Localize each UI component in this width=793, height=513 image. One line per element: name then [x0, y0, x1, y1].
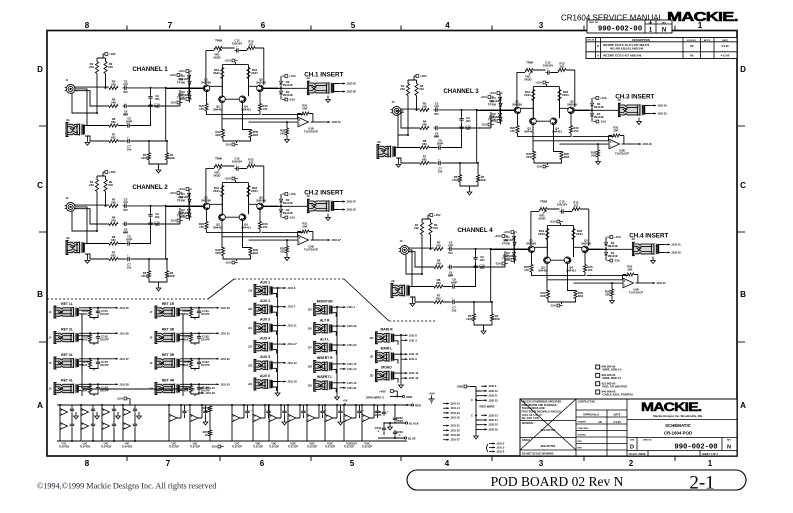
- wire gnd chain: [470, 387, 481, 432]
- wire emitter join: [207, 111, 304, 114]
- resistor R130 6K8: [249, 130, 252, 138]
- svg-text:J2L: J2L: [66, 237, 71, 240]
- capacitor C35 47P 50V: [434, 108, 440, 112]
- wire RET 3R row: [180, 359, 213, 371]
- op-amp U4B TL072ACP: [623, 278, 634, 288]
- svg-text:INSERT L: INSERT L: [317, 375, 332, 379]
- wire INSERT L: [333, 383, 340, 393]
- svg-text:APPROVALS: APPROVALS: [583, 413, 599, 417]
- wire tail join: [222, 102, 251, 143]
- svg-text:AB: AB: [598, 421, 602, 424]
- svg-text:DWG NO.: DWG NO.: [643, 440, 652, 442]
- wire transistor interconnect: [518, 101, 572, 126]
- svg-text:.001: .001: [154, 223, 160, 227]
- wire main signal bus: [495, 248, 603, 250]
- svg-text:1: 1: [708, 459, 713, 468]
- svg-text:N: N: [662, 28, 666, 34]
- checkbox 940-008-00: [596, 390, 600, 394]
- resistor R42 249: [429, 223, 432, 235]
- capacitor C201: [70, 407, 74, 413]
- svg-text:J101-33: J101-33: [220, 382, 230, 386]
- svg-text:TL072CP: TL072CP: [253, 446, 264, 449]
- svg-text:TL072CP: TL072CP: [190, 446, 201, 449]
- svg-text:200: 200: [605, 292, 610, 296]
- transistor Q32 2N5089: [568, 107, 575, 114]
- svg-text:1N4148: 1N4148: [283, 83, 293, 87]
- resistor R431 20K: [626, 273, 634, 276]
- svg-text:3-9-95: 3-9-95: [613, 421, 621, 424]
- insert jack J1I channel 1: [308, 82, 333, 94]
- svg-text:TL072ACP: TL072ACP: [304, 247, 318, 251]
- wire A-row opamp 7: [325, 405, 337, 441]
- svg-text:100/10V: 100/10V: [543, 63, 554, 67]
- svg-text:100 PF: 100 PF: [201, 363, 210, 367]
- svg-text:+48V: +48V: [420, 74, 427, 78]
- wire row1 to center: [453, 249, 505, 267]
- svg-text:C: C: [471, 398, 473, 402]
- wire lower pair: [474, 302, 492, 329]
- svg-text:6K8: 6K8: [578, 294, 584, 298]
- resistor R250 10: [208, 406, 211, 412]
- resistor R36 249: [420, 126, 429, 129]
- svg-text:DATE: DATE: [614, 413, 621, 417]
- svg-text:+15A: +15A: [116, 397, 123, 401]
- wire channel bus: [166, 205, 204, 207]
- svg-text:J30: J30: [370, 337, 375, 340]
- wire A-row pair 2: [81, 405, 97, 441]
- capacitor C17 100 10V: [126, 139, 132, 143]
- wire A-row opamp 9: [362, 405, 374, 441]
- wire main signal bus: [170, 205, 278, 207]
- output connector J102-37: [324, 239, 330, 241]
- connector J101-38: [112, 383, 118, 385]
- svg-text:J102-30: J102-30: [671, 251, 681, 255]
- connector J101-12: [280, 362, 286, 364]
- insert send connector J102-37: [339, 201, 345, 203]
- wire RET left column bus: [82, 314, 188, 389]
- svg-text:TL074CN: TL074CN: [80, 446, 91, 449]
- ground channel 2 input stage: [156, 286, 161, 291]
- wire A-row opamp 2: [232, 405, 244, 441]
- svg-text:J4L: J4L: [391, 280, 396, 283]
- svg-text:+15A: +15A: [600, 96, 607, 100]
- ground A-row pair 1: [74, 414, 79, 419]
- svg-text:100P: 100P: [126, 237, 133, 241]
- svg-text:J102-38: J102-38: [346, 90, 356, 94]
- svg-text:AUX 2: AUX 2: [260, 299, 270, 303]
- capacitor C233: [393, 430, 397, 436]
- svg-text:RET 2L: RET 2L: [61, 327, 73, 331]
- svg-text:5: 5: [350, 459, 355, 468]
- svg-text:CHANNEL 2: CHANNEL 2: [132, 184, 168, 191]
- svg-text:200: 200: [591, 153, 596, 157]
- capacitor C18 100P 25V: [126, 123, 132, 127]
- svg-text:J21: J21: [248, 327, 253, 330]
- svg-text:TP100: TP100: [488, 102, 497, 106]
- svg-text:681: 681: [422, 142, 427, 146]
- arrows J101-21..27: [443, 425, 449, 427]
- svg-text:WIRE, RED 4.5: WIRE, RED 4.5: [603, 376, 622, 380]
- connector J101-31: [213, 332, 219, 334]
- capacitor C39 .001: [459, 117, 463, 123]
- insert jack J2I channel 2: [308, 200, 333, 212]
- svg-text:1N4148: 1N4148: [608, 244, 618, 248]
- svg-text:J101-30: J101-30: [220, 306, 230, 310]
- svg-text:-15A: -15A: [481, 123, 487, 127]
- capacitor C48 100P 25V: [451, 284, 457, 288]
- wire emitter join: [207, 229, 304, 232]
- resistor R330 6K8: [560, 152, 563, 160]
- resistor R429 6K8: [546, 291, 549, 299]
- svg-text:BLACK: BLACK: [409, 422, 419, 426]
- resistor R38 681: [420, 146, 429, 149]
- wire phantom to input: [408, 76, 417, 135]
- svg-text:+15A: +15A: [535, 81, 542, 85]
- resistor R212 301: [247, 164, 255, 167]
- resistor R129 6K8: [221, 130, 224, 138]
- wire A-row caps right: [384, 405, 407, 441]
- connector J102-10: [481, 390, 487, 392]
- resistor R34 100K: [476, 175, 479, 182]
- resistor R14 100K: [165, 153, 168, 160]
- svg-text:1N4148: 1N4148: [283, 211, 293, 215]
- svg-text:200: 200: [280, 249, 285, 253]
- phantom +48V tag channel 2: [103, 171, 105, 173]
- svg-text:BLUE: BLUE: [408, 437, 416, 441]
- svg-text:CH.1 INSERT: CH.1 INSERT: [304, 72, 343, 79]
- svg-text:2N5089: 2N5089: [256, 198, 266, 202]
- svg-text:J32: J32: [370, 375, 375, 378]
- svg-text:J102-13: J102-13: [488, 413, 498, 417]
- wire tail join: [222, 220, 251, 261]
- wire differential pair frame: [547, 223, 573, 255]
- wire main bus: [400, 335, 402, 383]
- svg-text:DATE: DATE: [722, 39, 728, 42]
- svg-text:J101-12: J101-12: [287, 361, 297, 365]
- svg-text:+15A: +15A: [289, 192, 296, 196]
- svg-text:TL072CP: TL072CP: [362, 446, 373, 449]
- capacitor C208: [133, 422, 137, 428]
- svg-text:47/25: 47/25: [396, 419, 403, 423]
- svg-text:ALT R: ALT R: [320, 318, 330, 322]
- insert send connector J102-39: [339, 83, 345, 85]
- svg-text:RET 3R: RET 3R: [162, 353, 175, 357]
- op-amp U3C TL074CN upper: [102, 409, 110, 416]
- svg-text:D: D: [740, 65, 746, 74]
- svg-text:1N4148: 1N4148: [594, 105, 604, 109]
- insert jack J4I channel 4: [633, 243, 658, 255]
- svg-text:J102-11: J102-11: [488, 394, 498, 398]
- svg-text:-15A: -15A: [550, 304, 556, 308]
- resistor R230 6K8: [249, 248, 252, 256]
- connector J101-30: [340, 344, 346, 346]
- svg-text:J3L: J3L: [377, 141, 382, 144]
- connector J101-29: [340, 325, 346, 327]
- svg-text:J101-17: J101-17: [287, 342, 297, 346]
- svg-text:REV: REV: [578, 441, 583, 443]
- connector J101-32: [213, 358, 219, 360]
- capacitor C45 47P 50V: [448, 247, 454, 251]
- connector J101-30: [213, 307, 219, 309]
- svg-text:RET 2R: RET 2R: [162, 327, 175, 331]
- ground main bus: [399, 383, 404, 388]
- wire MONITOR: [333, 307, 340, 317]
- connector J101-3: [402, 339, 408, 341]
- resistor R123 150: [258, 104, 261, 112]
- wire RET 2R row: [180, 333, 213, 345]
- wire row1 to center: [128, 206, 180, 224]
- svg-text:604: 604: [184, 312, 189, 316]
- svg-text:TL072ACP: TL072ACP: [304, 129, 318, 133]
- svg-text:J101-16: J101-16: [450, 416, 460, 420]
- wire insert jack sends: [589, 106, 650, 114]
- svg-text:DESCRIPTION: DESCRIPTION: [632, 38, 650, 42]
- capacitor C163 100 PF: [197, 360, 201, 366]
- diode D21 1N4148: [187, 192, 190, 197]
- svg-text:+15V: +15V: [428, 391, 435, 395]
- resistor R118 2K21: [247, 68, 250, 79]
- diode D13 1N4148: [279, 80, 282, 85]
- svg-text:150: 150: [524, 268, 529, 272]
- connector J102-9: [481, 385, 487, 387]
- wire RET 4R row: [180, 384, 213, 396]
- svg-text:100 PF: 100 PF: [100, 312, 109, 316]
- capacitor C162 100 PF: [197, 335, 201, 341]
- wire AUX 1: [273, 288, 280, 298]
- transistor Q31 2N5089: [514, 107, 521, 114]
- svg-text:100 PF: 100 PF: [100, 337, 109, 341]
- svg-text:6K8: 6K8: [564, 155, 570, 159]
- svg-text:2K21: 2K21: [538, 232, 545, 236]
- capacitor C26 47P 50V: [123, 222, 129, 226]
- svg-text:-15A: -15A: [211, 445, 217, 449]
- svg-text:CHANNEL 4: CHANNEL 4: [457, 227, 493, 234]
- svg-text:50V: 50V: [434, 112, 439, 116]
- svg-text:2K21: 2K21: [524, 93, 531, 97]
- insert return connector J102-36: [339, 209, 345, 211]
- svg-text:J101-38: J101-38: [119, 382, 129, 386]
- resistor R229 6K8: [221, 248, 224, 256]
- mic input jack J4 channel 4: [400, 246, 409, 255]
- op-amp U2D TL074CN lower: [81, 423, 89, 430]
- diode D24 1N4148: [279, 208, 282, 213]
- resistor R27 681: [109, 257, 118, 260]
- connector J101-11: [280, 324, 286, 326]
- svg-text:8: 8: [85, 459, 90, 468]
- svg-text:TL074CN: TL074CN: [59, 446, 70, 449]
- svg-text:47P: 47P: [123, 82, 128, 86]
- svg-text:+15A: +15A: [224, 59, 231, 63]
- wire mic jack to filter network: [72, 87, 109, 125]
- svg-text:3: 3: [539, 21, 544, 30]
- ground opamp channel 4: [610, 299, 615, 304]
- svg-text:3-9-95: 3-9-95: [721, 45, 729, 48]
- svg-text:J1L: J1L: [66, 119, 71, 122]
- capacitor C152 100 PF: [96, 335, 100, 341]
- ground monitor bus: [335, 395, 340, 400]
- svg-text:POD BOARD 02 Rev N: POD BOARD 02 Rev N: [491, 474, 624, 489]
- connector J101-35: [112, 307, 118, 309]
- svg-text:J102-33: J102-33: [642, 142, 652, 146]
- op-amp U13C TL072ACP: [344, 414, 352, 422]
- mic input jack J2 channel 2: [66, 203, 75, 212]
- svg-text:249: 249: [111, 218, 116, 222]
- svg-text:J102-14: J102-14: [488, 418, 498, 422]
- ground A-row pair 2: [95, 414, 100, 419]
- resistor R46 249: [434, 265, 443, 268]
- transistor Q14 2N4401: [239, 96, 246, 103]
- resistor R12 249: [104, 62, 107, 74]
- wire opamp input: [222, 119, 297, 128]
- connector J101-15: [340, 363, 346, 365]
- wire A-row pair 1: [60, 405, 76, 441]
- wire trim loop: [517, 70, 575, 107]
- wire A-row top power rail: [57, 404, 407, 406]
- transistor Q24 2N4401: [239, 214, 246, 221]
- capacitor C19 .001: [148, 95, 152, 101]
- resistor R33 100K: [458, 175, 461, 182]
- wire A-row opamp 8: [344, 405, 356, 441]
- svg-text:100K: 100K: [141, 156, 148, 160]
- wire mic jack to filter network: [72, 205, 109, 243]
- capacitor C204: [91, 422, 95, 428]
- svg-text:150: 150: [510, 129, 515, 133]
- svg-text:J101-37: J101-37: [119, 357, 129, 361]
- svg-text:+15A: +15A: [489, 91, 496, 95]
- wire transistor interconnect: [207, 197, 261, 222]
- svg-text:TP100: TP100: [177, 198, 186, 202]
- svg-text:TRIM: TRIM: [215, 39, 223, 43]
- wire RET 1L row: [79, 308, 112, 320]
- capacitor C206: [112, 422, 116, 428]
- wire lower pair: [149, 141, 167, 168]
- transistor Q13 2N4401: [219, 96, 226, 103]
- resistor R222 150: [205, 222, 208, 230]
- wire opamp feedback: [298, 232, 313, 241]
- wire differential pair frame: [222, 62, 248, 94]
- svg-text:1N4148: 1N4148: [489, 99, 499, 103]
- ground channel 1 line input: [85, 140, 90, 145]
- resistor R119 2K21: [221, 68, 224, 79]
- svg-text:CH.2 INSERT: CH.2 INSERT: [304, 190, 343, 197]
- svg-text:J102-9: J102-9: [488, 384, 497, 388]
- svg-text:2N5089: 2N5089: [567, 102, 577, 106]
- svg-text:TL072CP: TL072CP: [269, 446, 280, 449]
- svg-text:5: 5: [351, 21, 356, 30]
- svg-text:J101-19: J101-19: [409, 376, 419, 380]
- -15A insert tag channel 4: [607, 260, 610, 262]
- svg-text:990-002-00: 990-002-00: [674, 443, 717, 451]
- svg-text:J101-9: J101-9: [409, 357, 418, 361]
- wire terminal BLACK: [384, 405, 405, 435]
- svg-text:CHANNEL 3: CHANNEL 3: [443, 88, 479, 95]
- svg-text:+15A: +15A: [178, 187, 185, 191]
- diode D16 1N4448: [188, 94, 191, 99]
- diode D15 1N4448: [188, 80, 191, 85]
- wire RET right column bus: [182, 314, 184, 389]
- output connector J102-33: [635, 143, 641, 145]
- svg-text:604: 604: [184, 337, 189, 341]
- capacitor C222: [245, 409, 249, 415]
- resistor R418 2K21: [572, 229, 575, 240]
- svg-text:301: 301: [249, 42, 254, 46]
- svg-text:4-12-95: 4-12-95: [721, 54, 730, 57]
- transistor Q42 2N5089: [582, 246, 589, 253]
- svg-text:681: 681: [111, 238, 116, 242]
- svg-text:AUX 4: AUX 4: [260, 336, 270, 340]
- svg-text:604: 604: [83, 312, 88, 316]
- svg-text:REV: REV: [662, 22, 667, 24]
- svg-text:6: 6: [261, 21, 266, 30]
- svg-text:J101-14: J101-14: [450, 406, 460, 410]
- capacitor C227: [338, 409, 342, 415]
- svg-text:+15A: +15A: [480, 95, 487, 99]
- svg-text:CABLE ASSY, POD/PSU: CABLE ASSY, POD/PSU: [603, 393, 634, 397]
- svg-text:J102-12: J102-12: [488, 398, 498, 402]
- mic input jack J1 channel 1: [66, 85, 75, 94]
- resistor R218 2K21: [247, 186, 250, 197]
- op-amp U11C TL072ACP: [307, 414, 315, 422]
- svg-text:J101-30: J101-30: [347, 343, 357, 347]
- svg-text:249: 249: [111, 100, 116, 104]
- svg-text:WIRE, ORN 4.5: WIRE, ORN 4.5: [603, 368, 622, 372]
- svg-text:47P: 47P: [434, 104, 439, 108]
- insert return connector J102-33: [650, 113, 656, 115]
- capacitor C224: [282, 409, 286, 415]
- svg-text:GND: GND: [457, 385, 463, 389]
- ground red wire chain: [475, 431, 477, 434]
- wire AUX 2: [273, 307, 280, 317]
- resistor R17 681: [109, 139, 118, 142]
- wire channel bus: [166, 87, 204, 89]
- svg-text:-15A: -15A: [600, 120, 606, 124]
- svg-text:-15A: -15A: [170, 101, 176, 105]
- svg-text:RET 4R: RET 4R: [162, 378, 175, 382]
- svg-text:J101-27: J101-27: [450, 438, 460, 442]
- resistor R228 200: [285, 246, 288, 253]
- svg-text:APP'D: APP'D: [704, 39, 711, 42]
- svg-text:CHANNEL 1: CHANNEL 1: [132, 66, 168, 73]
- resistor R15 249: [109, 86, 118, 89]
- svg-text:J102-36: J102-36: [346, 208, 356, 212]
- svg-text:TL072CP: TL072CP: [307, 446, 318, 449]
- svg-text:J101-6: J101-6: [287, 286, 296, 290]
- resistor R43 100K: [472, 314, 475, 321]
- svg-text:1N4148: 1N4148: [178, 77, 188, 81]
- wire A-row pair 3: [102, 405, 118, 441]
- svg-text:249: 249: [414, 226, 419, 230]
- diode D14 1N4148: [279, 90, 282, 95]
- resistor R21 249: [95, 180, 98, 192]
- svg-text:TL072CP: TL072CP: [169, 446, 180, 449]
- svg-text:100K: 100K: [466, 317, 473, 321]
- revision table: [586, 38, 737, 59]
- -15A insert tag channel 3: [593, 121, 596, 123]
- svg-text:249: 249: [436, 243, 441, 247]
- insert jack J3I channel 3: [619, 104, 644, 116]
- svg-text:1N4148: 1N4148: [608, 254, 618, 258]
- svg-text:681: 681: [422, 157, 427, 161]
- resistor R32 249: [415, 84, 418, 96]
- phantom +48V tag channel 3: [414, 75, 416, 77]
- phantom +48V tag channel 1: [103, 53, 105, 55]
- insert send connector J102-34: [650, 105, 656, 107]
- svg-text:©1994,©1999 Mackie Designs Inc: ©1994,©1999 Mackie Designs Inc. All righ…: [37, 482, 216, 491]
- connector J101-37: [112, 358, 118, 360]
- capacitor C205: [112, 407, 116, 413]
- svg-text:CH.4 INSERT: CH.4 INSERT: [629, 233, 668, 240]
- svg-text:C: C: [37, 181, 43, 190]
